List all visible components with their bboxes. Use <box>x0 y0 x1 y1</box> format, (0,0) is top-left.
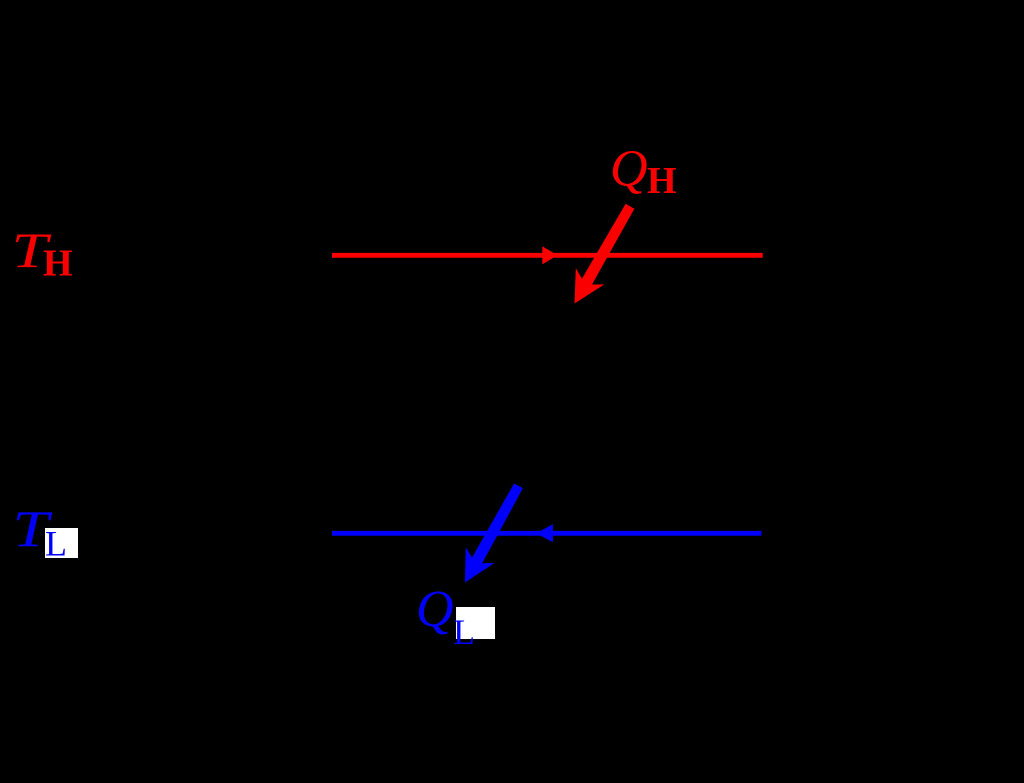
svg-text:Q: Q <box>416 581 454 638</box>
svg-text:H: H <box>43 243 73 285</box>
svg-text:H: H <box>647 160 677 202</box>
svg-text:Q: Q <box>610 141 648 198</box>
svg-text:L: L <box>45 524 67 564</box>
svg-text:L: L <box>453 612 475 652</box>
